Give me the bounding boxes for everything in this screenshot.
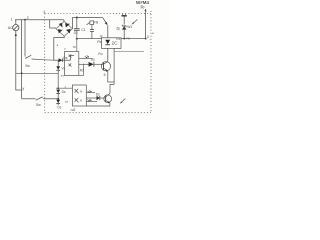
svg-text:W1: W1 <box>127 25 132 29</box>
node terminal dot below AC source <box>15 34 17 36</box>
svg-text:Sw: Sw <box>36 103 41 107</box>
label R4 under rail left of box <box>97 40 101 44</box>
svg-text:m: m <box>124 97 127 101</box>
svg-text:a: a <box>57 43 59 47</box>
wire horizontal mid rail left segment y38.6 <box>77 38 102 40</box>
label D7 <box>91 58 95 62</box>
opto phototransistor arrows <box>85 56 87 58</box>
label text top-right line2 <box>141 5 146 10</box>
wire mid tap y73.3 <box>16 72 58 74</box>
label inside box lower <box>80 98 82 102</box>
node junction dot tap x21.6 <box>21 72 23 74</box>
wire bridge right vertex to top rail <box>71 18 73 29</box>
svg-text:Ds: Ds <box>96 93 100 97</box>
wire AC line1 vertical x21.6 <box>21 20 23 99</box>
label 3 right of output junction <box>147 35 149 39</box>
svg-text:y: y <box>22 86 24 90</box>
wire zener branch lower <box>123 30 125 39</box>
leader arrow annotation near zener <box>133 20 137 24</box>
transistor Q2 <box>104 95 112 103</box>
label right of box lower <box>80 68 84 72</box>
dashed module box border <box>45 11 151 113</box>
svg-text:u: u <box>64 46 66 50</box>
opto U2 LED2 <box>75 98 79 102</box>
wire below contact box <box>91 25 93 30</box>
label small left above box <box>64 46 66 50</box>
wire bridge bottom vertex return <box>54 36 64 60</box>
label U2 below box <box>71 108 76 112</box>
leader arrow annotation bottom right <box>121 100 124 103</box>
svg-text:2C: 2C <box>112 40 119 45</box>
AC source tilde <box>14 26 18 30</box>
svg-text:Ds: Ds <box>91 58 95 62</box>
label small above wire <box>65 85 67 89</box>
svg-text:Ds: Ds <box>63 56 67 60</box>
label rw right of zener junction <box>126 37 130 41</box>
svg-text:Vs: Vs <box>61 66 65 70</box>
wire capacitor branch lower to box <box>76 31 78 52</box>
svg-text:2: 2 <box>27 16 29 20</box>
wire Q2 emitter down <box>86 103 110 106</box>
wire horizontal mid rail right segment y38.6 <box>121 38 146 40</box>
connector terminal on top border for zener branch <box>122 15 127 17</box>
svg-text:Ru: Ru <box>98 52 102 56</box>
label 2 above wire <box>27 16 29 20</box>
wire opto collector out y58.4 <box>79 57 93 59</box>
label ZC inside box <box>112 40 119 45</box>
diode D8 pointing down inside box <box>105 40 110 45</box>
wire AC source bottom lead down <box>16 31 22 90</box>
label 6 beside emitter line <box>104 73 106 77</box>
label R6 below relay box left <box>98 52 102 56</box>
svg-text:ru2: ru2 <box>71 108 76 112</box>
switch S2 lower contact arm <box>36 97 43 100</box>
optocoupler U1 box <box>64 52 78 76</box>
label S1 <box>25 64 30 68</box>
diode D6 pointing down <box>56 100 60 104</box>
label ZD left of zener <box>116 26 120 30</box>
bridge diode bottom-left <box>58 29 63 33</box>
zener diode ZD1 <box>122 25 126 27</box>
arrowhead on output line top <box>144 9 147 12</box>
relay contact branch lead <box>87 22 90 24</box>
diode D7 before T1 base <box>89 62 94 67</box>
wire y51.3 to output line <box>114 50 144 52</box>
opto U1 LED1 <box>69 54 72 57</box>
node junction dot cap branch <box>76 38 78 40</box>
wire chain mid <box>57 71 59 90</box>
svg-text:zs: zs <box>61 73 65 77</box>
wire opto U2 out upper y92.7 <box>86 92 95 94</box>
wire Q1 emitter down with jog <box>108 71 114 96</box>
wire opto emitter hook <box>79 64 84 76</box>
wire bridge top vertex riser <box>63 20 65 22</box>
label right of D4 <box>61 66 65 70</box>
label C1 <box>81 28 85 32</box>
svg-text:a: a <box>152 31 154 35</box>
wire T2 base <box>86 97 96 99</box>
bus collector Q1 vertical <box>107 48 109 61</box>
svg-text:D1: D1 <box>74 31 78 35</box>
svg-text:Ds: Ds <box>57 106 61 110</box>
label FB right of contact box <box>94 20 98 24</box>
capacitor C1 plates <box>74 28 80 30</box>
svg-text:cs: cs <box>65 100 69 104</box>
label small under wire <box>65 100 69 104</box>
bridge diode top-left <box>59 23 63 28</box>
svg-text:N: N <box>80 98 82 102</box>
label text top-right line1 <box>136 0 150 5</box>
bridge rectifier outline <box>56 21 72 36</box>
label D9 above <box>96 93 100 97</box>
diode D5 pointing down <box>56 90 60 94</box>
wire bottom AC feed y98.8 <box>22 98 36 100</box>
svg-text:N: N <box>80 90 82 94</box>
wire opto2 upper pin y88.2 <box>56 87 72 89</box>
wire AC line2 vertical x25 <box>24 20 26 56</box>
wire zener branch upper <box>123 17 125 25</box>
label S2 <box>36 103 41 107</box>
diode chain vertical upper <box>57 60 59 66</box>
label W1 right of zener <box>127 25 132 29</box>
svg-text:1: 1 <box>11 18 13 22</box>
wire bus above box <box>107 25 109 38</box>
opto U2 phototransistor arrows upper <box>87 91 89 93</box>
wire riser into opto box upper pin <box>71 55 74 60</box>
label 7 near junction <box>22 86 24 90</box>
svg-text:AC: AC <box>8 26 13 30</box>
label m near arrow <box>124 97 127 101</box>
diode D3 on wire y60.2 <box>54 59 59 61</box>
wire AC top feed y19.7 <box>15 19 64 21</box>
node junction dot chain upper wire <box>57 87 59 89</box>
svg-text:3: 3 <box>147 35 149 39</box>
label U1 above box <box>73 45 76 49</box>
wire opto U2 out lower y101.6 <box>86 101 97 103</box>
label a below bridge <box>57 43 59 47</box>
wire AC source top stub <box>15 20 17 25</box>
switch S1 upper contact arm <box>25 55 31 58</box>
label inside box upper <box>80 90 82 94</box>
label D3 <box>63 56 67 60</box>
label AC <box>8 26 13 30</box>
wire top DC rail y17.5 <box>72 17 102 19</box>
wire chain lower <box>57 94 59 100</box>
label below wire tap <box>61 73 65 77</box>
opto U2 phototransistor arrows lower <box>87 100 89 102</box>
label R3 left of zener junction <box>116 37 120 41</box>
relay contact box K1 <box>90 21 94 25</box>
opto U1 LED2 <box>69 63 72 66</box>
node junction dot top rail cap branch <box>76 17 78 19</box>
optocoupler U2 box <box>72 85 86 106</box>
label K1 left of relay box <box>100 34 103 38</box>
svg-text:C1: C1 <box>81 28 85 32</box>
wire diagonal rail end to bus with arrowhead <box>103 18 106 23</box>
label D1 bridge <box>74 31 78 35</box>
diode D4 pointing down <box>56 66 60 70</box>
node junction dot wire2 top <box>24 19 26 21</box>
relay box K1 <box>102 38 122 49</box>
wire capacitor branch upper <box>76 18 78 29</box>
svg-text:4: 4 <box>43 10 45 14</box>
transistor Q1 <box>101 62 110 71</box>
label 4 above dashed corner <box>43 10 45 14</box>
wire below capacitor C2 <box>91 32 93 39</box>
node junction dot zener branch <box>123 38 125 40</box>
label D6 below <box>57 106 61 110</box>
label 1 left of corner <box>11 18 13 22</box>
wire T1 base from box <box>79 63 89 65</box>
svg-text:Zp: Zp <box>116 26 120 30</box>
bridge diode top-right <box>65 23 70 27</box>
svg-text:ru: ru <box>73 45 76 49</box>
capacitor C2 plates <box>90 29 94 31</box>
node junction chain bottom wire <box>57 98 59 100</box>
label small on dashed border below <box>152 31 154 35</box>
node Vout output line <box>145 9 147 39</box>
diode D9 before T2 base <box>97 96 100 100</box>
opto U2 LED1 <box>75 89 79 93</box>
wire from switch S1 to diode chain <box>32 59 54 60</box>
AC source G1 circle <box>13 25 19 31</box>
node junction dot output <box>145 38 147 40</box>
wire bridge left vertex feed <box>50 20 56 28</box>
label D5 <box>62 90 66 94</box>
svg-text:Fo: Fo <box>141 5 146 10</box>
wire branch below box x114.1 <box>113 48 115 84</box>
bridge diode bottom-right <box>66 29 71 34</box>
svg-text:FB: FB <box>94 20 98 24</box>
svg-text:Sw: Sw <box>25 64 30 68</box>
wire from switch S2 into module <box>43 98 58 100</box>
svg-text:Ds: Ds <box>62 90 66 94</box>
svg-text:6: 6 <box>104 73 106 77</box>
